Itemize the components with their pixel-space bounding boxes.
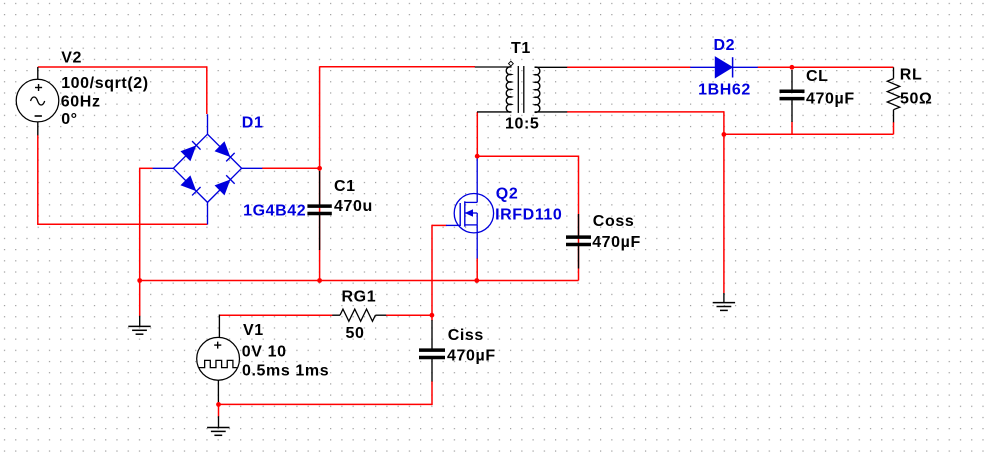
svg-text:Coss: Coss xyxy=(593,213,635,230)
svg-text:470µF: 470µF xyxy=(592,234,641,251)
svg-text:0V 10: 0V 10 xyxy=(242,344,287,361)
svg-text:1G4B42: 1G4B42 xyxy=(243,202,306,219)
svg-text:D1: D1 xyxy=(242,114,264,131)
svg-text:0°: 0° xyxy=(61,111,77,128)
svg-text:Ciss: Ciss xyxy=(448,327,484,344)
svg-text:RG1: RG1 xyxy=(342,289,377,306)
svg-text:V1: V1 xyxy=(243,322,264,339)
svg-text:0.5ms 1ms: 0.5ms 1ms xyxy=(242,363,329,380)
svg-text:IRFD110: IRFD110 xyxy=(495,207,562,224)
svg-text:1BH62: 1BH62 xyxy=(698,81,751,98)
svg-text:100/sqrt(2): 100/sqrt(2) xyxy=(61,75,149,92)
svg-text:D2: D2 xyxy=(714,37,736,54)
svg-text:T1: T1 xyxy=(511,40,531,57)
svg-text:RL: RL xyxy=(900,67,923,84)
svg-text:Q2: Q2 xyxy=(496,186,519,203)
svg-text:CL: CL xyxy=(806,68,829,85)
svg-text:V2: V2 xyxy=(61,50,82,67)
svg-text:470u: 470u xyxy=(334,198,373,215)
svg-text:50Ω: 50Ω xyxy=(900,90,932,107)
svg-text:470µF: 470µF xyxy=(447,348,496,365)
svg-text:50: 50 xyxy=(346,325,365,342)
svg-text:C1: C1 xyxy=(334,178,356,195)
svg-text:60Hz: 60Hz xyxy=(61,94,101,111)
svg-text:10:5: 10:5 xyxy=(505,116,539,133)
svg-text:470µF: 470µF xyxy=(806,90,855,107)
